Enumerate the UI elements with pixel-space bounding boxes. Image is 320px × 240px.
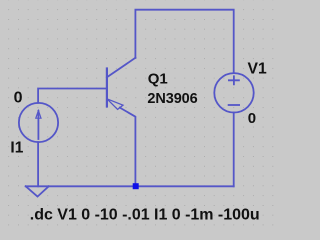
voltage source V1 minus sign [229,104,240,106]
transistor Q1 emitter arrow [107,99,123,110]
svg-text:2N3906: 2N3906 [147,91,197,107]
svg-text:Q1: Q1 [148,70,168,87]
junction node [133,183,139,189]
voltage source V1 plus sign [229,76,239,84]
svg-text:.dc V1 0 -10 -.01 I1 0 -1m -10: .dc V1 0 -10 -.01 I1 0 -1m -100u [30,206,260,223]
transistor Q1 emitter diagonal and wire [120,108,136,187]
ground symbol [26,186,49,196]
voltage source V1 circle [214,73,253,112]
wire bottom rail [26,185,234,187]
wire I1 bottom to ground rail [37,142,39,186]
wire base from I1 to Q1 [38,89,107,103]
current source I1 circle [19,103,58,142]
svg-text:V1: V1 [248,60,267,77]
wire V1 bottom to rail [233,113,235,187]
current source I1 arrowhead [36,111,41,119]
wire top rail collector to V1 [135,10,233,73]
transistor Q1 collector diagonal [107,58,135,78]
svg-text:0: 0 [248,110,256,127]
transistor Q1 body bar [106,69,108,107]
svg-text:I1: I1 [10,140,23,157]
svg-text:0: 0 [14,90,23,107]
current source I1 arrow shaft [37,111,39,139]
